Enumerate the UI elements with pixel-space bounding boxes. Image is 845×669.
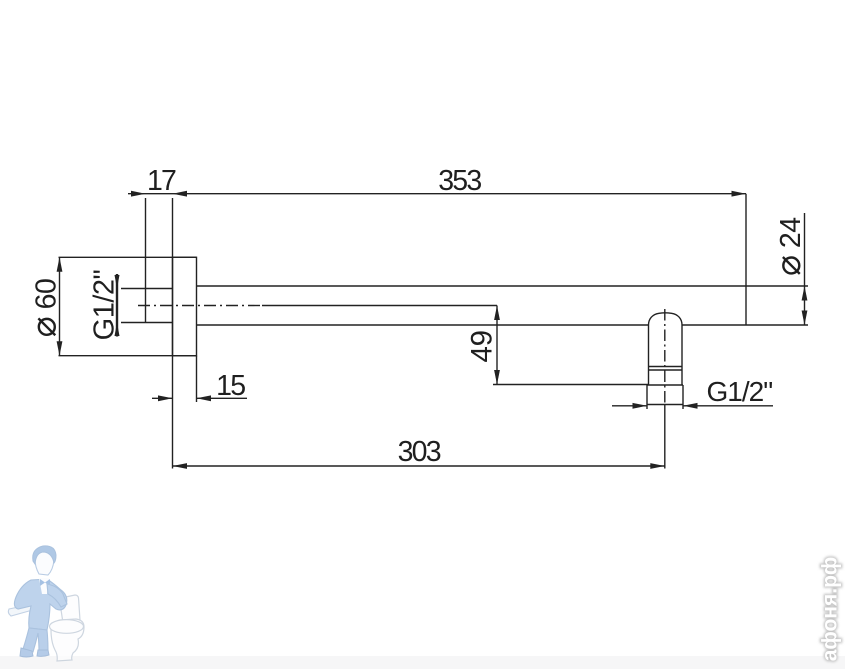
node arrow d24 down <box>802 311 808 326</box>
svg-text:G1/2": G1/2" <box>88 269 120 340</box>
toilet bowl body <box>51 619 84 661</box>
bottom gray band <box>0 656 845 669</box>
wire 49 bottom extension <box>493 384 649 386</box>
flange wall rosette body <box>173 257 197 355</box>
wire centerline dash-dot <box>138 305 262 307</box>
svg-text:⌀ 60: ⌀ 60 <box>24 279 63 338</box>
outlet body right side <box>681 325 683 385</box>
svg-text:17: 17 <box>147 165 176 197</box>
toilet rim <box>50 620 84 634</box>
svg-text:⌀ 24: ⌀ 24 <box>769 217 808 276</box>
node arrow 15 left <box>158 395 173 401</box>
plumber head face <box>35 549 54 575</box>
plumber shirt bib <box>39 578 49 594</box>
node arrow 15 right <box>197 395 212 401</box>
outlet nut right side <box>682 385 684 409</box>
outlet groove line 2 <box>649 369 683 371</box>
wire outlet centerline vertical <box>664 309 666 404</box>
wire extension line E1 thread end <box>145 198 147 323</box>
node arrow 49 up <box>494 306 500 321</box>
outlet body left side <box>648 325 650 385</box>
node arrow d60 down <box>57 341 63 356</box>
watermark plumber logo <box>8 546 84 661</box>
plumber shoes <box>20 648 33 657</box>
wire G1/2 left dimension line <box>116 274 118 337</box>
wire G1/2 outlet dim left tail <box>612 405 647 407</box>
wire flange bottom edge + d60 extension <box>59 355 197 357</box>
svg-text:15: 15 <box>216 370 245 402</box>
tube arm bottom edge right of outlet <box>682 324 808 326</box>
wire d24 dimension line with text underline <box>804 213 806 325</box>
wire flange top edge + d60 extension <box>59 256 197 258</box>
wire d60 dimension line <box>59 257 61 355</box>
svg-text:афоня.рф: афоня.рф <box>819 557 842 662</box>
node arrow G1/2 left top <box>115 275 120 289</box>
wall thread G1/2 male top edge <box>121 288 173 290</box>
wire 303 dimension line <box>173 465 665 467</box>
plumber bow tie <box>40 579 50 586</box>
plumber hair <box>33 546 56 564</box>
node arrow 353 left <box>173 191 188 197</box>
node arrow 353 right <box>732 191 747 197</box>
tube arm right end <box>745 194 747 325</box>
wall thread G1/2 male bottom edge <box>121 322 173 324</box>
outlet groove line 1 <box>649 366 683 368</box>
outlet nut left side <box>646 385 648 409</box>
wire extension line E2 wall line <box>172 198 174 469</box>
tube arm top edge <box>197 285 809 287</box>
node arrow 303 right <box>650 463 665 469</box>
tube arm bottom edge left of outlet <box>197 324 649 326</box>
wire top dimension line 17/353 <box>128 193 746 195</box>
wire 15 dim left tail <box>152 397 173 399</box>
node arrow tip at 17 left extension <box>131 191 146 197</box>
node arrow 303 left <box>173 463 188 469</box>
wire 15 right extension below flange <box>196 356 198 402</box>
wire G1/2 outlet dim right tail <box>683 405 773 407</box>
node arrow d24 up <box>802 286 808 301</box>
node arrow G1/2 left bottom <box>115 323 120 337</box>
svg-text:303: 303 <box>398 436 441 468</box>
outlet step line <box>647 384 683 386</box>
outlet dome arch <box>649 313 683 325</box>
wire 15 dim right tail <box>197 397 248 399</box>
plumber body jacket <box>14 579 66 630</box>
node arrow G1/2 outlet left <box>633 403 648 409</box>
wire 49 top reference solid <box>262 305 497 307</box>
plumber arm on toilet <box>47 584 67 607</box>
svg-text:G1/2": G1/2" <box>707 376 773 407</box>
plumber legs <box>23 628 48 652</box>
node arrow 49 down <box>494 370 500 385</box>
outlet bottom edge <box>647 404 683 406</box>
node arrow d60 up <box>57 257 63 272</box>
svg-text:49: 49 <box>466 330 499 362</box>
node arrow G1/2 outlet right <box>683 403 698 409</box>
svg-text:353: 353 <box>438 165 481 197</box>
wire 49 dimension line <box>496 306 498 385</box>
wire outlet centerline to 303 <box>664 404 666 469</box>
toilet lid up <box>59 595 80 623</box>
plumber wrench <box>8 601 38 616</box>
